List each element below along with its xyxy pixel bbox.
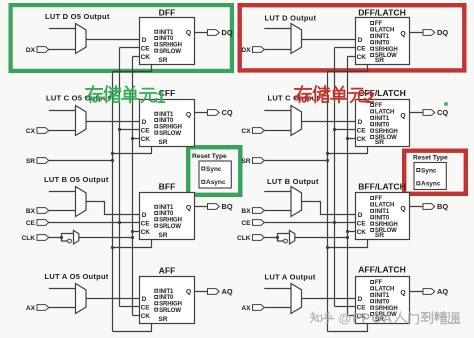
svg-text:CE: CE (26, 220, 36, 227)
svg-text:AX: AX (26, 305, 36, 312)
svg-text:Async: Async (206, 179, 226, 186)
svg-text:2: 2 (366, 89, 375, 107)
svg-text:Sync: Sync (421, 167, 437, 174)
svg-text:LUT D Output: LUT D Output (265, 14, 317, 23)
svg-text:Reset Type: Reset Type (413, 155, 448, 162)
svg-text:1: 1 (157, 89, 166, 107)
svg-text:SR: SR (241, 158, 250, 165)
svg-text:DX: DX (26, 47, 36, 54)
svg-text:CLK: CLK (21, 235, 35, 242)
svg-text:Sync: Sync (206, 166, 222, 173)
svg-text:LUT B O5 Output: LUT B O5 Output (44, 175, 109, 184)
svg-text:LUT D O5 Output: LUT D O5 Output (45, 12, 110, 21)
svg-text:AQ: AQ (437, 287, 448, 296)
svg-text:AFF: AFF (159, 266, 176, 276)
svg-text:SR: SR (26, 158, 35, 165)
svg-text:DQ: DQ (222, 28, 233, 37)
svg-text:BX: BX (26, 208, 36, 215)
svg-text:BFF: BFF (159, 182, 176, 192)
svg-text:CE: CE (241, 220, 251, 227)
svg-text:AQ: AQ (222, 287, 233, 296)
svg-text:BQ: BQ (222, 202, 233, 211)
svg-text:DX: DX (241, 47, 251, 54)
svg-text:LUT A Output: LUT A Output (265, 273, 316, 282)
svg-text:CQ: CQ (437, 108, 448, 117)
svg-text:DQ: DQ (437, 28, 448, 37)
svg-text:LUT A O5 Output: LUT A O5 Output (45, 272, 109, 281)
svg-text:DFF/LATCH: DFF/LATCH (358, 8, 406, 18)
svg-text:CX: CX (241, 128, 251, 135)
svg-text:AX: AX (241, 305, 251, 312)
svg-text:BX: BX (241, 208, 251, 215)
svg-text:CX: CX (26, 128, 36, 135)
svg-text:Async: Async (421, 181, 441, 188)
svg-text:DFF: DFF (159, 8, 176, 18)
svg-text:AFF/LATCH: AFF/LATCH (358, 265, 406, 275)
svg-text:Reset Type: Reset Type (192, 153, 227, 160)
svg-text:@FPGA: @FPGA (339, 311, 394, 326)
svg-text:LUT B Output: LUT B Output (267, 177, 319, 186)
svg-text:BQ: BQ (437, 202, 448, 211)
svg-text:CLK: CLK (237, 235, 251, 242)
svg-text:CQ: CQ (222, 108, 233, 117)
svg-text:BFF/LATCH: BFF/LATCH (358, 182, 406, 192)
